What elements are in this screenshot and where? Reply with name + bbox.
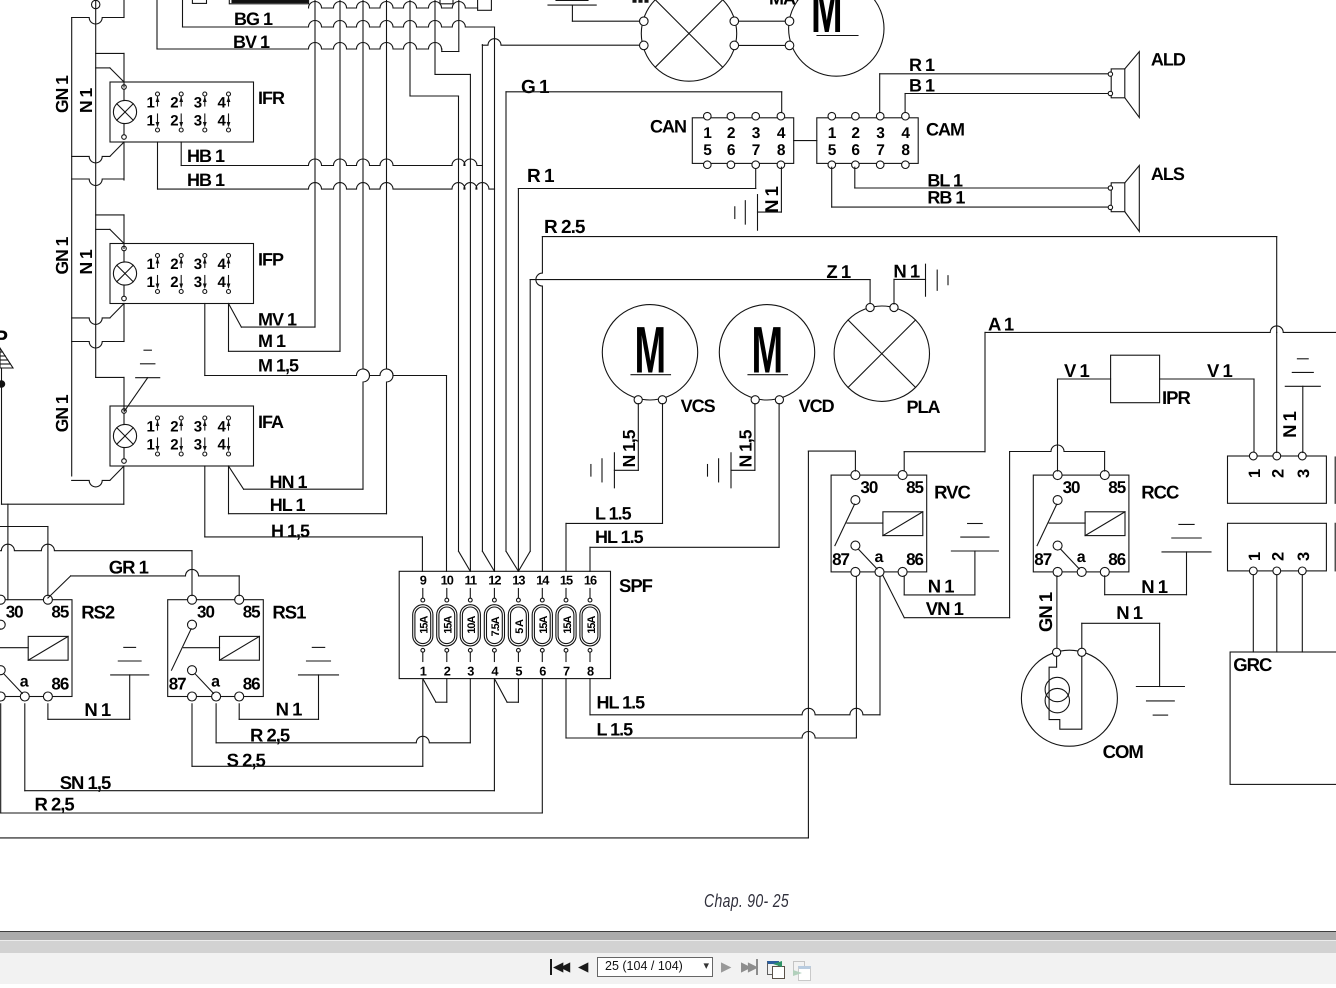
relay RS2 box <box>0 600 72 697</box>
wire SN1,5 (RS2-a) <box>24 704 26 791</box>
wire N1 rail top circle <box>92 0 100 8</box>
wire BG1 riser to SPF 12 <box>494 27 496 571</box>
ground above IFA <box>136 377 160 379</box>
lamp symbol IFP <box>113 262 136 285</box>
svg-text:87: 87 <box>832 550 849 569</box>
svg-text:2: 2 <box>727 125 735 142</box>
svg-text:85: 85 <box>1108 478 1125 497</box>
wire VCD right down to HL1.5 <box>778 404 780 548</box>
wire HL1.5 bottom <box>590 708 880 715</box>
top connector stub D <box>478 0 492 10</box>
svg-text:30: 30 <box>197 603 214 622</box>
svg-text:HB 1: HB 1 <box>187 170 225 190</box>
svg-text:2: 2 <box>170 256 178 273</box>
wire V1 left <box>1058 378 1111 380</box>
ground RVC N1 <box>951 550 998 552</box>
svg-text:4: 4 <box>218 256 227 273</box>
svg-text:COM: COM <box>1103 741 1144 762</box>
wire bracket B below IFR <box>123 142 125 180</box>
wire CAM4 to ALD- <box>904 94 906 113</box>
wire N1 jog to top terminal <box>96 214 124 216</box>
wire SPF8 down (HL1.5) <box>589 679 591 715</box>
cut label marks top <box>633 0 636 2</box>
svg-text:3: 3 <box>194 95 202 112</box>
svg-text:a: a <box>211 674 220 691</box>
svg-text:HL 1.5: HL 1.5 <box>595 527 644 547</box>
speaker ALD <box>1111 69 1125 98</box>
svg-text:RCC: RCC <box>1141 481 1179 502</box>
svg-text:N 1: N 1 <box>76 88 96 114</box>
svg-text:a: a <box>875 549 884 566</box>
svg-text:VCS: VCS <box>681 396 716 416</box>
headlight connector IFR <box>110 82 254 142</box>
svg-text:86: 86 <box>51 675 68 694</box>
svg-text:IFP: IFP <box>258 250 284 270</box>
svg-text:N 1: N 1 <box>1279 411 1300 438</box>
svg-text:87: 87 <box>1034 550 1051 569</box>
svg-text:ALD: ALD <box>1151 49 1186 69</box>
wire VN1 from RVC-a <box>883 576 904 618</box>
relay RCC box <box>1033 475 1129 572</box>
svg-text:15A: 15A <box>562 615 574 633</box>
svg-text:IFA: IFA <box>258 412 284 432</box>
svg-text:N 1,5: N 1,5 <box>736 429 756 467</box>
svg-text:1: 1 <box>420 664 427 679</box>
wire SPF1 down (S2,5) <box>422 679 424 767</box>
svg-text:IFR: IFR <box>258 88 285 108</box>
wire HB1a drop to SPF12 diag <box>481 45 483 551</box>
wire GR1 <box>71 569 240 576</box>
svg-text:14: 14 <box>536 573 550 588</box>
svg-text:3: 3 <box>194 256 202 273</box>
relay RVC pin 85 <box>898 471 907 480</box>
wire BV1 riser <box>458 0 460 52</box>
svg-text:2: 2 <box>170 419 178 436</box>
relay RS2 coil <box>28 636 68 660</box>
ground RS2 N1 <box>111 674 149 676</box>
svg-text:HL 1.5: HL 1.5 <box>597 693 646 713</box>
relay RS2 pin 85 <box>43 595 52 604</box>
svg-text:3: 3 <box>1295 469 1313 478</box>
wire SPF6 down (R2,5 bottom) <box>541 679 543 813</box>
relay RCC pin a <box>1077 567 1086 576</box>
wire bracket A below box <box>72 318 110 325</box>
svg-text:IPR: IPR <box>1162 387 1190 408</box>
svg-text:GRC: GRC <box>1233 654 1272 675</box>
wires lamp to motor <box>739 20 786 22</box>
svg-text:S 2,5: S 2,5 <box>227 750 266 771</box>
wire RCC-85 bracket <box>1010 445 1105 452</box>
box GRC <box>1230 652 1336 784</box>
svg-text:N 1: N 1 <box>893 261 920 282</box>
ground top-center <box>548 4 596 6</box>
wire N1 jog to top terminal <box>96 52 124 54</box>
edge connector slivers <box>1334 457 1336 503</box>
svg-text:VCD: VCD <box>799 396 835 416</box>
svg-text:5: 5 <box>828 142 837 159</box>
svg-text:30: 30 <box>1063 478 1080 497</box>
svg-text:1: 1 <box>1246 552 1264 561</box>
svg-text:6: 6 <box>539 664 546 679</box>
wire S2,5 from RS1-87 <box>191 704 193 767</box>
svg-text:2: 2 <box>170 95 178 112</box>
relay RVC coil <box>883 512 923 536</box>
wire CAM5 RB1 <box>831 167 833 207</box>
relay RS2 pin a <box>20 692 29 701</box>
svg-text:5 A: 5 A <box>514 619 526 634</box>
svg-text:M 1: M 1 <box>258 331 286 351</box>
speaker ALS <box>1111 183 1125 212</box>
device symbol left edge (cut) <box>0 348 13 368</box>
svg-text:4: 4 <box>218 95 227 112</box>
IFR bottom terminal <box>122 135 127 140</box>
pin 2 right top connector <box>1273 452 1281 460</box>
svg-text:86: 86 <box>1108 550 1125 569</box>
ground at CAN8 <box>757 195 759 231</box>
wire HB1 upper <box>180 142 182 166</box>
wire bracket B below IFP <box>123 304 125 342</box>
svg-text:RS2: RS2 <box>81 602 115 623</box>
svg-text:R 2,5: R 2,5 <box>35 794 75 815</box>
svg-text:16: 16 <box>584 573 597 588</box>
svg-text:6: 6 <box>727 142 736 159</box>
wire M1,5 drop to SPF10 <box>446 376 448 572</box>
svg-text:2: 2 <box>444 664 451 679</box>
wire N1 jog to top terminal <box>96 376 124 378</box>
svg-text:3: 3 <box>194 113 202 130</box>
wire M1,5 <box>204 304 206 376</box>
wire H1,5 <box>204 466 206 537</box>
lamp right terminals <box>730 17 739 26</box>
wire jog to col11 straight <box>435 73 470 75</box>
svg-text:85: 85 <box>243 603 260 622</box>
svg-text:N 1,5: N 1,5 <box>619 429 639 467</box>
relay RS1 coil <box>220 636 260 660</box>
svg-text:2: 2 <box>851 125 859 142</box>
relay RVC pin 30 <box>851 471 860 480</box>
svg-text:15A: 15A <box>443 615 455 633</box>
wire SPF3 down (R2,5) <box>469 679 471 743</box>
svg-text:1: 1 <box>828 125 837 142</box>
svg-text:1: 1 <box>147 274 155 291</box>
svg-text:P: P <box>0 327 8 350</box>
svg-text:12: 12 <box>488 573 501 588</box>
svg-text:V 1: V 1 <box>1207 360 1232 381</box>
svg-text:Z 1: Z 1 <box>826 261 850 282</box>
ground V1 pin3 <box>1285 385 1320 387</box>
wire GN1 RCC-87 to COM <box>1056 576 1058 648</box>
IFP bottom terminal <box>122 296 127 301</box>
wire VCS left to ground <box>637 404 639 471</box>
wire A1 vertical <box>984 332 986 451</box>
wire SPF11 diagonal entry <box>459 551 471 571</box>
ground RS1 N1 <box>299 674 339 676</box>
svg-text:HL 1: HL 1 <box>270 495 306 515</box>
relay RS1 pin 85 <box>235 595 244 604</box>
wire R2.5 drop to A1 <box>1276 237 1278 333</box>
top connector stub B <box>229 0 308 4</box>
wire HL1 <box>228 466 230 514</box>
svg-text:30: 30 <box>860 478 877 497</box>
wire PLA N1 to ground <box>893 279 895 304</box>
svg-text:ALS: ALS <box>1151 164 1185 184</box>
wire feed y550 to RS1-30 <box>0 544 192 550</box>
wire N1 rail <box>95 0 97 377</box>
relay RVC pin 86 <box>898 567 907 576</box>
svg-text:M: M <box>635 313 666 387</box>
wire IFA bottom feed <box>2 503 124 505</box>
svg-text:SPF: SPF <box>619 575 653 596</box>
pin 3 right top connector <box>1298 452 1306 460</box>
svg-text:RB 1: RB 1 <box>927 188 965 208</box>
svg-text:85: 85 <box>906 478 923 497</box>
svg-text:SN 1,5: SN 1,5 <box>60 772 111 793</box>
wire col11 straight riser <box>469 74 471 571</box>
svg-text:1: 1 <box>1246 469 1264 478</box>
svg-text:R 1: R 1 <box>527 166 555 187</box>
svg-text:VN 1: VN 1 <box>926 598 964 619</box>
svg-text:N 1: N 1 <box>76 249 96 275</box>
svg-text:RS1: RS1 <box>272 602 306 623</box>
svg-text:1: 1 <box>147 113 155 130</box>
wire RVC-86 N1 to ground <box>903 576 905 595</box>
relay RCC pin 86 <box>1100 567 1109 576</box>
wire jog to col11 diag <box>410 95 459 97</box>
top connector stub C <box>440 0 453 4</box>
svg-text:15A: 15A <box>586 615 598 633</box>
motor MAV (top) <box>789 0 884 76</box>
ground RCC N1 <box>1162 551 1211 553</box>
wire GR1 to RS2-85 <box>48 576 71 598</box>
svg-text:3: 3 <box>467 664 474 679</box>
svg-text:M 1,5: M 1,5 <box>258 356 299 376</box>
wire HL1.5 top <box>589 547 591 571</box>
wire VCS right down to L1.5 <box>662 404 664 524</box>
ground below COM <box>1136 686 1184 688</box>
svg-text:3: 3 <box>194 419 202 436</box>
wire bracket above box <box>72 342 124 349</box>
svg-text:2: 2 <box>170 437 178 454</box>
wire GN1 rail <box>71 18 73 477</box>
wire R2.5 bus <box>536 237 543 572</box>
svg-text:L 1.5: L 1.5 <box>597 719 634 739</box>
svg-text:V 1: V 1 <box>1064 360 1089 381</box>
svg-text:6: 6 <box>851 142 860 159</box>
wire diag into box top <box>96 67 110 69</box>
lamp symbol IFR <box>113 100 136 123</box>
svg-text:10A: 10A <box>466 615 478 633</box>
ground VCD <box>730 453 732 488</box>
wire SPF link 1-2 <box>423 679 436 703</box>
svg-text:GN 1: GN 1 <box>52 75 72 113</box>
wire SPF7 down (L1.5) <box>565 679 567 738</box>
wire bundle v1 MV1 riser <box>314 0 316 327</box>
wire H1,5 drop to SPF9 <box>421 537 423 571</box>
wire RS2-85 riser <box>47 527 49 596</box>
svg-text:86: 86 <box>243 675 260 694</box>
svg-text:10: 10 <box>441 573 454 588</box>
wire RS1-30 riser <box>191 551 193 596</box>
svg-text:RVC: RVC <box>934 481 970 502</box>
svg-text:3: 3 <box>1295 552 1313 561</box>
wire V1 right <box>1160 378 1254 380</box>
wire bracket A below box <box>72 156 110 163</box>
svg-text:2: 2 <box>1269 552 1287 561</box>
svg-text:MV 1: MV 1 <box>258 309 297 329</box>
svg-text:HB 1: HB 1 <box>187 146 225 166</box>
svg-text:B 1: B 1 <box>909 76 935 96</box>
IFA top terminal <box>122 409 127 414</box>
lamp PLA <box>834 306 929 401</box>
lamp left terminals <box>640 17 649 26</box>
svg-text:15: 15 <box>560 573 573 588</box>
relay RS1 box <box>168 600 264 697</box>
svg-text:87: 87 <box>169 675 186 694</box>
wire A1 left riser <box>807 451 809 838</box>
wire SPF4 down (SN1,5) <box>493 679 495 791</box>
wire Z1 <box>529 280 531 552</box>
svg-text:2: 2 <box>170 274 178 291</box>
wire SPF13 diag left G1 <box>506 551 518 571</box>
svg-text:M: M <box>811 0 842 46</box>
wire CAN-CAM link <box>794 140 817 142</box>
relay RVC box <box>831 475 927 572</box>
svg-text:85: 85 <box>51 603 68 622</box>
svg-text:7: 7 <box>563 664 570 679</box>
svg-text:CAN: CAN <box>650 117 686 137</box>
svg-text:GN 1: GN 1 <box>1035 592 1056 632</box>
svg-text:4: 4 <box>218 113 227 130</box>
relay RCC pin 85 <box>1100 471 1109 480</box>
wire bundle v6 to jog <box>434 0 436 74</box>
svg-text:4: 4 <box>218 437 227 454</box>
svg-text:N 1: N 1 <box>276 699 303 720</box>
wire SPF12 diagonal entry <box>482 551 494 571</box>
svg-text:4: 4 <box>218 274 227 291</box>
wire RCC-86 N1 to ground <box>1104 576 1106 595</box>
wire feed y526 from left <box>0 526 48 528</box>
wire bundle v5 to G-jog <box>409 0 411 96</box>
wire MV1 <box>229 304 242 328</box>
svg-text:BG 1: BG 1 <box>234 9 273 29</box>
wire VN1 riser to RCC bracket <box>1009 452 1011 618</box>
lamp symbol IFA <box>113 424 136 447</box>
relay RS2 pin 30 <box>0 595 5 604</box>
svg-text:a: a <box>20 674 29 691</box>
fuse box SPF <box>399 571 610 678</box>
wire x124 top stub <box>123 0 125 18</box>
svg-text:L 1.5: L 1.5 <box>595 504 632 524</box>
connector CAN <box>692 118 793 164</box>
svg-text:M: M <box>752 313 783 387</box>
relay RS1 pin a <box>212 692 221 701</box>
wire bundle v3 HN1 riser <box>363 0 370 489</box>
svg-text:1: 1 <box>147 95 155 112</box>
svg-text:N 1: N 1 <box>761 186 782 213</box>
wire RS1-86 to ground <box>238 704 240 720</box>
connector CAM <box>817 118 918 164</box>
relay RS2 switch <box>0 620 5 629</box>
svg-text:7: 7 <box>876 142 884 159</box>
horn COM <box>1021 650 1117 746</box>
wire CAM3 to ALD <box>879 74 881 113</box>
svg-text:15A: 15A <box>538 615 550 633</box>
junction dot left edge <box>0 381 5 387</box>
relay RCC pin 87 <box>1053 541 1062 550</box>
svg-text:N 1: N 1 <box>1141 576 1168 597</box>
wire lamp feed BV <box>481 44 483 46</box>
wire CAM6 BL1 <box>854 167 856 188</box>
svg-text:7.5A: 7.5A <box>490 616 502 636</box>
relay RVC pin 87 <box>851 541 860 550</box>
ground right of PLA <box>925 264 927 296</box>
svg-text:3: 3 <box>194 437 202 454</box>
svg-text:11: 11 <box>465 573 477 588</box>
wire SPF13 diag right Z1 <box>518 551 530 571</box>
wire R2.5 drop to pin2 <box>1276 332 1278 452</box>
wire bottom bus <box>0 837 808 839</box>
svg-text:1: 1 <box>147 256 155 273</box>
svg-text:R 2.5: R 2.5 <box>544 217 586 238</box>
wire M1 <box>228 304 230 352</box>
relay RS2 pin 87 <box>0 666 5 675</box>
svg-text:2: 2 <box>170 113 178 130</box>
wire VCD left to ground <box>754 404 756 471</box>
svg-text:4: 4 <box>777 125 786 142</box>
wire ground to lamp <box>572 20 639 22</box>
svg-text:3: 3 <box>194 274 202 291</box>
wire G1 <box>505 92 507 551</box>
ground VCS <box>613 453 615 488</box>
svg-text:3: 3 <box>752 125 761 142</box>
svg-text:86: 86 <box>906 550 923 569</box>
motor VCD <box>719 305 814 400</box>
svg-text:GN 1: GN 1 <box>52 236 72 274</box>
relay RS2 pin 86 <box>43 692 52 701</box>
svg-text:13: 13 <box>512 573 525 588</box>
wire R2,5 bottom (RS2-87) <box>0 704 2 813</box>
wire SPF link 4-5 <box>494 679 507 703</box>
wire BG1 <box>182 0 184 27</box>
svg-text:4: 4 <box>901 125 910 142</box>
svg-text:a: a <box>1077 549 1086 566</box>
svg-text:G 1: G 1 <box>521 77 550 98</box>
pin 1 right top connector <box>1249 452 1257 460</box>
relay RS1 switch <box>188 620 197 629</box>
wire RS2-30 drop <box>7 504 9 600</box>
svg-text:1: 1 <box>147 437 155 454</box>
wire RVC-30 bracket <box>854 451 856 471</box>
wire bracket A below box <box>72 480 110 487</box>
interior lamp unit (top) <box>641 0 736 81</box>
box IPR <box>1111 355 1160 403</box>
IFR top terminal <box>122 85 127 90</box>
wire HN1 <box>229 466 244 489</box>
svg-text:4: 4 <box>218 419 227 436</box>
wire A1 bus <box>985 326 1336 333</box>
wire L1.5 top <box>565 523 567 571</box>
relay RVC pin a <box>875 567 884 576</box>
wire R2,5 from RS1-a <box>215 704 217 743</box>
wire CAN8 to ground <box>780 167 782 212</box>
relay RCC switch <box>1053 496 1062 505</box>
headlight connector IFP <box>110 244 254 304</box>
wire diag into box top <box>96 228 110 230</box>
wire top bus L0 <box>309 2 478 9</box>
svg-text:R 1: R 1 <box>909 55 935 75</box>
svg-text:N 1: N 1 <box>1116 602 1143 623</box>
svg-text:N 1: N 1 <box>928 576 955 597</box>
